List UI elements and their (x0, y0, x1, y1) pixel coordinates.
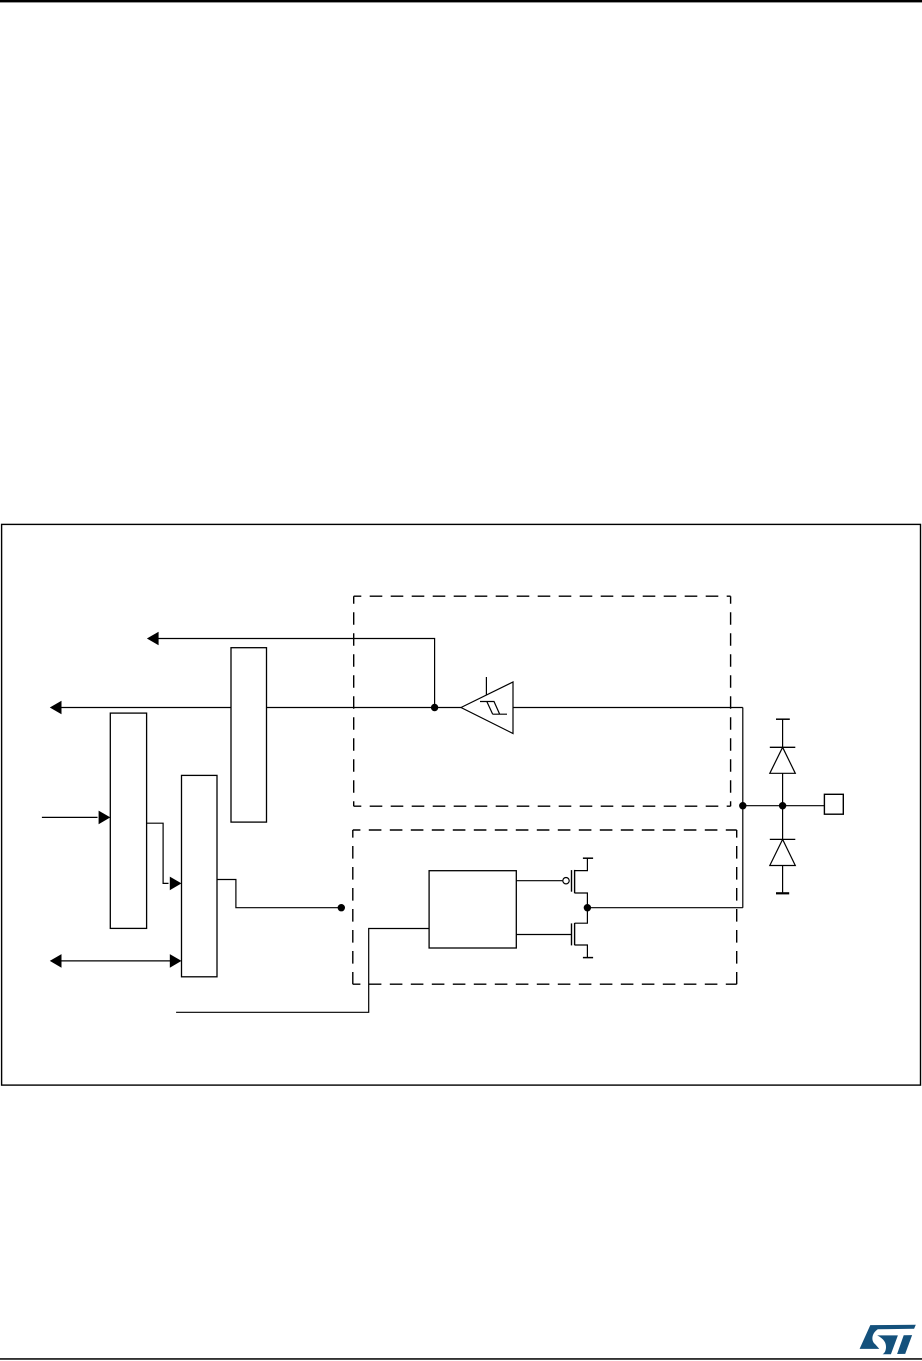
dashed box: input driver (354, 596, 731, 806)
header rule (0, 0, 922, 2)
wire: alternate function output line to schmitt node (158, 639, 435, 708)
wire: schmitt output to pad column (513, 707, 743, 709)
power VDD tick (protection) (776, 718, 790, 720)
transistor NMOS channel bar (574, 923, 576, 945)
diode D2 (to VSS) (770, 838, 796, 840)
schmitt trigger U1 (461, 682, 513, 734)
wire: driver output to pad bus (587, 907, 742, 909)
wire: NMOS gate line (516, 934, 571, 936)
wire: input data line (behind input data register) (61, 707, 461, 709)
transistor NMOS gate bar (571, 923, 573, 945)
power VDD tick (driver) (583, 857, 593, 859)
ground tick (driver) (583, 957, 593, 959)
wire: PMOS gate line (516, 880, 562, 882)
I/O pad square (824, 794, 843, 814)
wire: read/write bidirectional line (61, 960, 170, 962)
node: diode column junction dot (779, 802, 786, 809)
wire: pad horizontal net (743, 805, 825, 807)
footer rule (0, 1358, 922, 1360)
wire: net to diode D2 (782, 806, 784, 840)
PMOS inverter bubble (563, 878, 569, 884)
wire: PMOS source to VDD (575, 858, 588, 870)
arrowhead left (read input) (50, 701, 62, 715)
wire: VDD to diode D1 (782, 719, 784, 747)
wire: rect C output step to node (217, 880, 341, 908)
wire: rect B to rect C step (147, 823, 169, 883)
arrowhead right (set/reset to output reg) (170, 877, 182, 891)
wire: output control input (176, 929, 429, 1013)
node: bus/pad junction dot (739, 802, 746, 809)
wire: PMOS drain (575, 893, 588, 908)
figure frame (2, 524, 921, 1085)
node: junction dot at schmitt input (431, 704, 438, 711)
transistor PMOS channel bar (574, 870, 576, 893)
arrowhead left (read/write) (50, 954, 62, 968)
arrowhead right (read/write) (170, 954, 182, 968)
node: output data endpoint dot (338, 904, 345, 911)
wire: write line into rect B (42, 816, 98, 818)
wire: pad vertical bus (742, 708, 744, 908)
register: input data register (rect A) (231, 648, 267, 822)
block: output control (429, 871, 516, 948)
hysteresis symbol (480, 702, 507, 715)
node: driver output dot (584, 904, 591, 911)
wire: D1 to net (782, 773, 784, 805)
arrowhead left (alternate function out) (147, 632, 159, 646)
register: bit set/reset register (rect B) (110, 713, 146, 928)
ground tick (protection) (776, 892, 789, 894)
wire: NMOS source to ground (575, 945, 588, 958)
register: output data register (rect C) (182, 775, 218, 976)
wire: D2 to ground (782, 866, 784, 893)
ST logo (860, 1325, 916, 1354)
transistor PMOS gate bar (571, 870, 573, 892)
diode D1 (to VDD) (770, 746, 796, 748)
dashed box: output driver (353, 830, 737, 984)
schmitt enable tick (485, 677, 487, 695)
arrowhead right (write) (99, 811, 111, 825)
wire: NMOS drain (575, 908, 588, 924)
